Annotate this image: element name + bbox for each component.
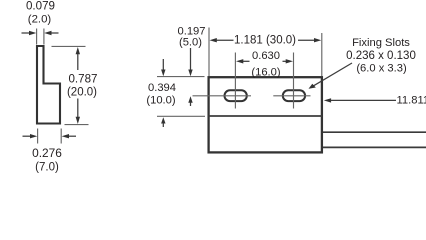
svg-text:0.394: 0.394 — [148, 82, 176, 94]
svg-text:1.181 (30.0): 1.181 (30.0) — [234, 35, 296, 47]
svg-text:0.236 x 0.130: 0.236 x 0.130 — [346, 50, 416, 62]
svg-text:(10.0): (10.0) — [146, 95, 175, 107]
svg-text:0.787: 0.787 — [68, 73, 97, 86]
svg-text:(16.0): (16.0) — [251, 67, 280, 79]
svg-text:(20.0): (20.0) — [67, 87, 97, 99]
svg-text:(6.0 x 3.3): (6.0 x 3.3) — [356, 63, 407, 75]
svg-text:11.811: 11.811 — [397, 95, 426, 107]
svg-text:0.276: 0.276 — [32, 146, 62, 160]
svg-text:(5.0): (5.0) — [179, 37, 202, 49]
svg-text:Fixing Slots: Fixing Slots — [352, 37, 410, 49]
svg-text:(7.0): (7.0) — [35, 162, 59, 174]
svg-text:(2.0): (2.0) — [28, 14, 52, 26]
svg-text:0.630: 0.630 — [252, 50, 280, 62]
svg-text:0.079: 0.079 — [26, 0, 55, 13]
